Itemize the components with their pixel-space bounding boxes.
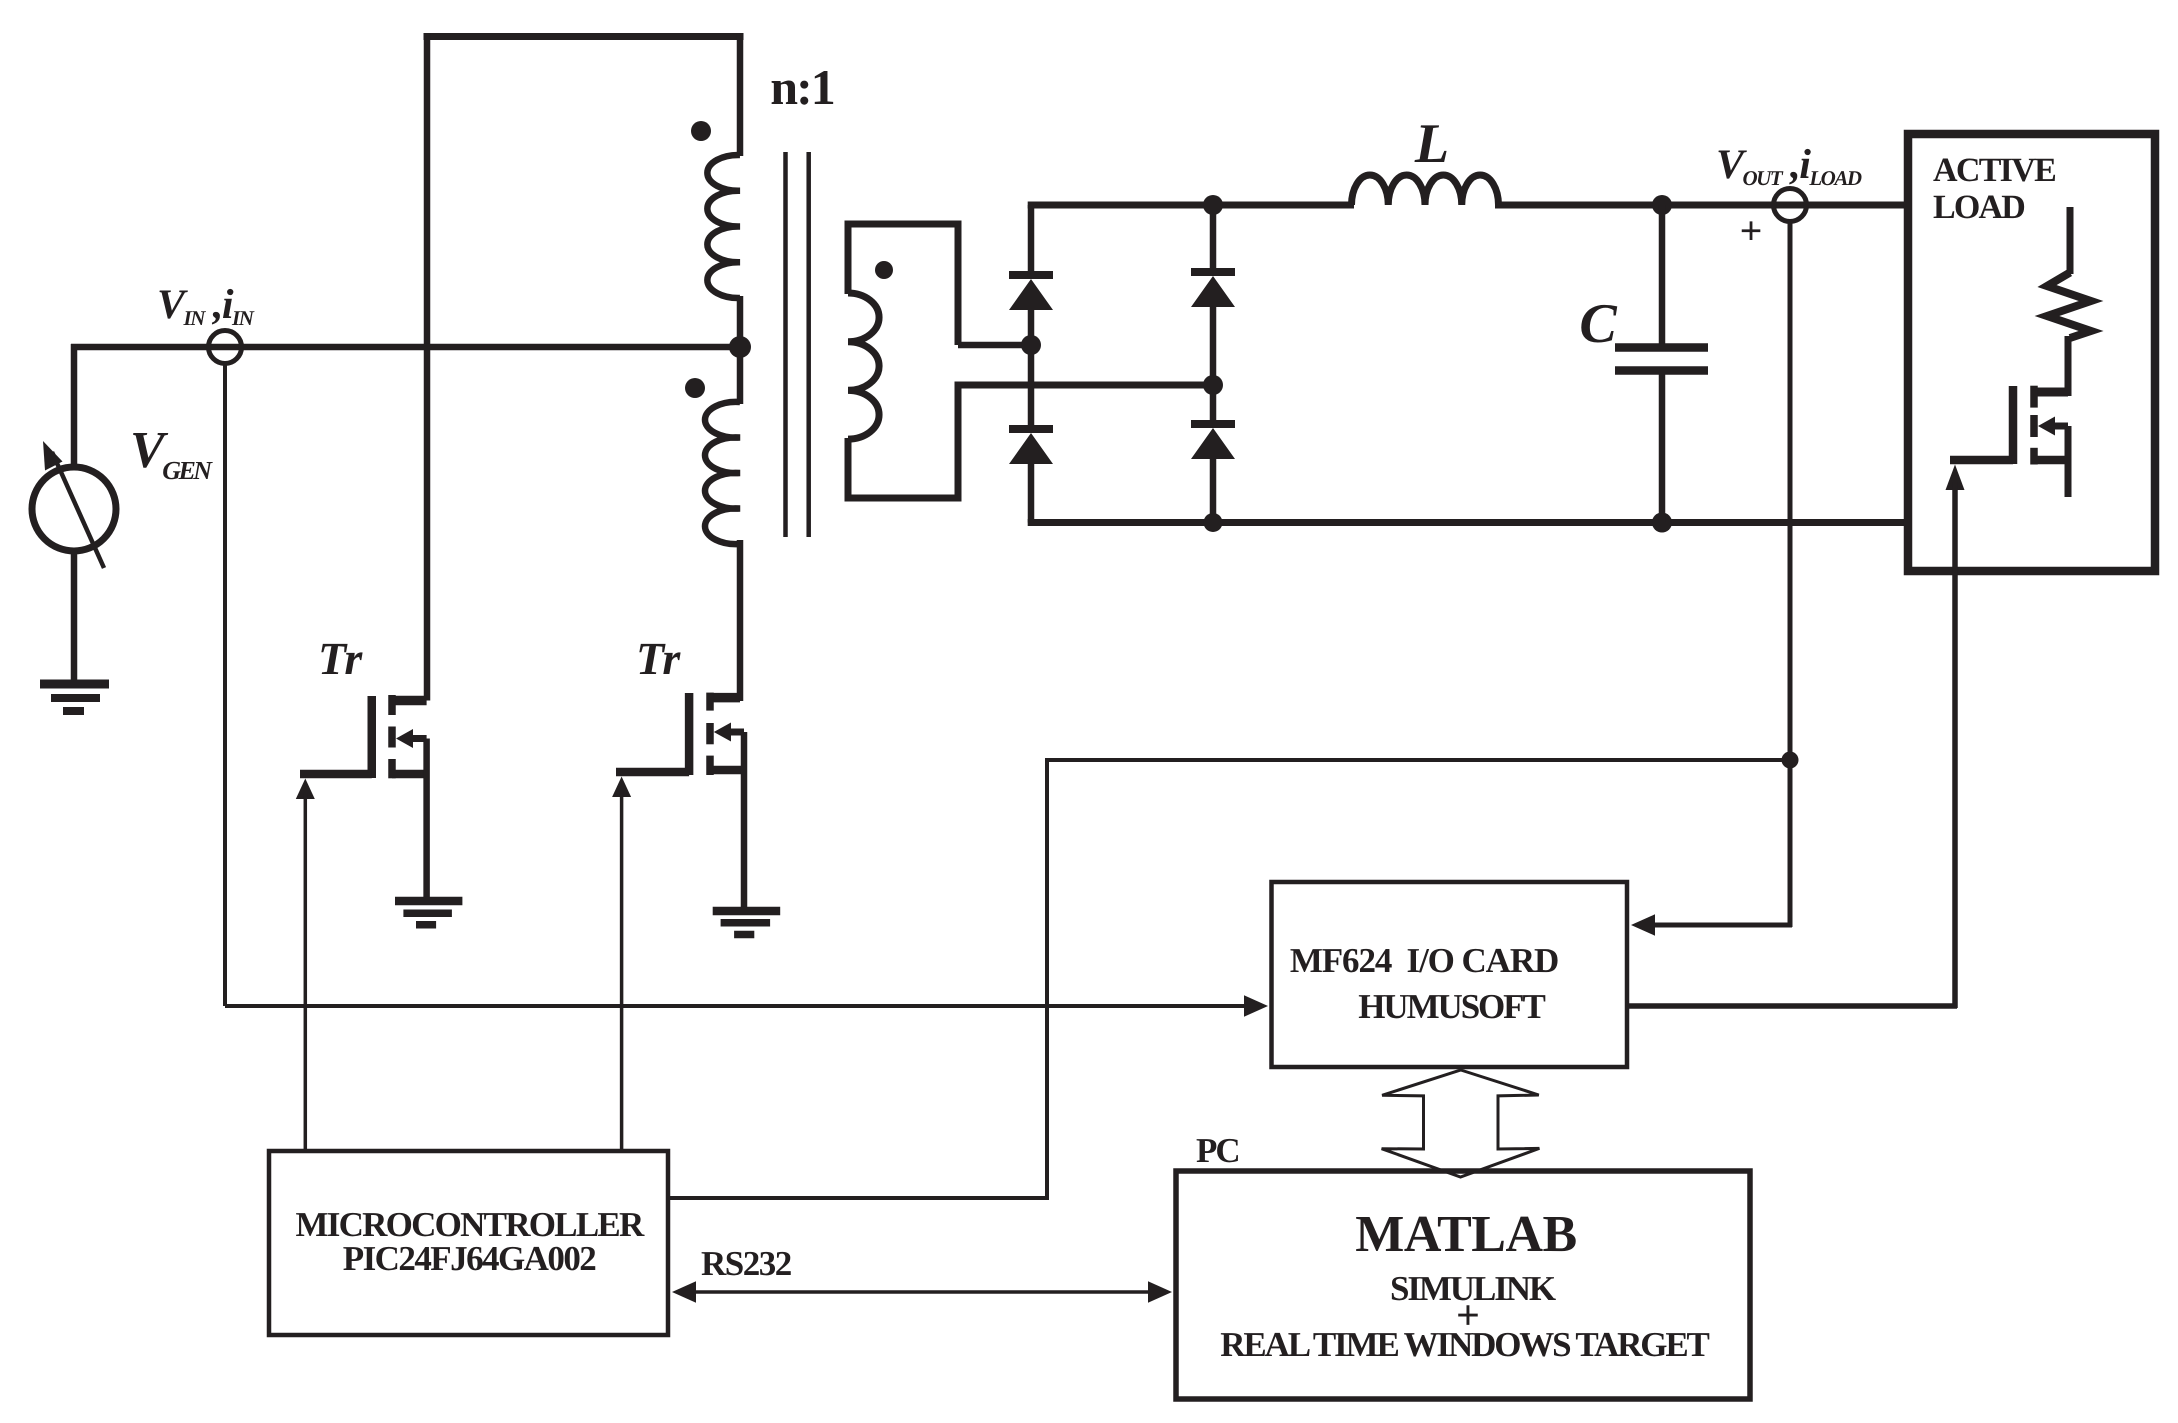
wire top loop horizontal <box>424 33 744 40</box>
svg-text:REAL TIME WINDOWS TARGET: REAL TIME WINDOWS TARGET <box>1220 1325 1709 1364</box>
polarity dot primary bottom <box>685 378 705 398</box>
wire VOUT sense into MF624 <box>1652 923 1792 928</box>
PC box <box>1176 1171 1750 1399</box>
svg-text:C: C <box>1579 293 1617 355</box>
svg-text:RS232: RS232 <box>701 1244 791 1283</box>
svg-text:LOAD: LOAD <box>1933 189 2024 226</box>
diode D3 <box>1009 425 1053 433</box>
wire MF624 output to active load <box>1627 1003 1957 1009</box>
svg-text:L: L <box>1414 113 1449 175</box>
diode D2 <box>1191 268 1235 276</box>
transistor Q3 body arrow <box>2053 423 2068 430</box>
transistor Q2 Tr drain connection <box>710 693 740 703</box>
transformer T1 secondary winding outline <box>958 342 1028 349</box>
ground generator <box>40 680 109 689</box>
transformer T1 core <box>783 152 788 537</box>
wire right loop vertical to primary top <box>737 33 744 156</box>
wire microcontroller output horizontal <box>668 1196 1047 1200</box>
polarity dot secondary <box>875 261 893 279</box>
wire Q2 gate lead <box>616 768 689 777</box>
svg-text:Tr: Tr <box>636 633 681 684</box>
svg-text:MATLAB: MATLAB <box>1355 1206 1576 1263</box>
wire VIN sense vertical <box>223 363 227 1006</box>
wire Q1 source to ground <box>423 739 430 902</box>
node VIN measurement circle <box>209 331 242 364</box>
wire VOUT sense vertical <box>1788 219 1793 927</box>
source VGEN variable arrow <box>52 452 104 568</box>
wire rectifier right column <box>1210 205 1217 269</box>
inductor L <box>1352 175 1499 205</box>
active load box <box>1908 134 2155 571</box>
transistor Q3 source connection <box>2034 456 2068 465</box>
wire primary bottom to Tr2 drain <box>737 540 744 701</box>
transistor Q2 Tr source connection <box>710 766 744 775</box>
wire bottom rail <box>1028 519 1908 526</box>
resistor load top lead <box>2067 207 2074 274</box>
wire microcontroller output to VOUT sense line <box>1045 758 1790 762</box>
wire left loop vertical (Tr1 drain feed) <box>424 33 431 701</box>
svg-text:ACTIVE: ACTIVE <box>1933 152 2055 189</box>
transistor Q1 Tr source connection <box>392 770 427 779</box>
transistor Q1 Tr body arrow <box>411 735 427 742</box>
junction D4 anode on bottom rail <box>1204 513 1223 532</box>
resistor load zigzag <box>2047 273 2091 339</box>
wire gate drive arrow Q3 from MF624 <box>1946 465 1965 491</box>
resistor load bottom lead to MOSFET drain <box>2065 336 2072 396</box>
transistor Q3 gate bar <box>2009 386 2018 464</box>
svg-text:MF624 I/O CARD: MF624 I/O CARD <box>1290 941 1558 980</box>
wire input rail VIN <box>71 344 740 351</box>
transistor Q1 Tr channel segments <box>388 695 396 715</box>
polarity dot primary top <box>691 121 711 141</box>
junction center tap primary <box>729 336 751 358</box>
junction D2 cathode on positive rail <box>1203 195 1223 215</box>
diode D1 <box>1009 271 1053 279</box>
svg-text:n:1: n:1 <box>770 59 833 115</box>
MF624 I/O card box <box>1272 882 1628 1067</box>
svg-text:HUMUSOFT: HUMUSOFT <box>1358 987 1545 1026</box>
transistor Q2 Tr gate bar <box>685 693 694 775</box>
source VGEN circle <box>32 467 116 551</box>
transistor Q1 Tr gate bar <box>368 696 377 778</box>
wire positive rail right of L <box>1495 202 1908 209</box>
wire Q1 gate lead <box>300 770 372 779</box>
ground Tr1 source <box>395 897 462 906</box>
wire gate drive arrow Q2 from microcontroller <box>612 777 631 798</box>
svg-text:PC: PC <box>1196 1131 1239 1170</box>
microcontroller box <box>269 1151 668 1335</box>
transistor Q3 load MOSFET drain connection <box>2034 388 2068 397</box>
wire gate drive arrow Q1 from microcontroller <box>296 779 315 800</box>
node VOUT measurement circle <box>1774 189 1807 222</box>
junction secondary lower tap to D2 anode <box>1203 375 1223 395</box>
capacitor C <box>1659 205 1666 344</box>
wire microcontroller output vertical <box>1045 758 1049 1200</box>
junction capacitor top <box>1652 195 1672 215</box>
wire Q3 gate lead <box>1950 456 2013 465</box>
svg-text:Tr: Tr <box>318 633 363 684</box>
transistor Q2 Tr channel segments <box>706 693 714 711</box>
wire primary winding to center tap <box>737 296 744 404</box>
wire Q2 source to ground <box>741 732 748 911</box>
junction PWM feedback on VOUT sense <box>1782 752 1799 769</box>
ground Tr2 source <box>713 907 781 916</box>
wire RS232 link <box>688 1290 1156 1294</box>
transistor Q2 Tr body arrow <box>729 729 744 736</box>
wire generator top lead <box>71 344 78 467</box>
transformer T1 primary top winding <box>707 155 740 298</box>
bidirectional bus arrow MF624-PC <box>1382 1070 1540 1177</box>
wire VIN sense horizontal to MF624 <box>225 1004 1250 1008</box>
wire generator bottom lead <box>71 551 78 682</box>
transistor Q1 Tr drain connection <box>392 696 427 706</box>
junction capacitor bottom <box>1652 513 1672 533</box>
transistor Q3 channel segments <box>2030 386 2038 408</box>
diode D4 <box>1191 420 1235 428</box>
wire positive rail left of L <box>1028 202 1354 209</box>
wire rectifier left column <box>1028 205 1035 272</box>
junction center tap to D1 anode <box>1021 335 1041 355</box>
transformer T1 primary bottom winding <box>705 402 740 544</box>
wire Q3 source stub <box>2065 426 2072 497</box>
svg-text:PIC24FJ64GA002: PIC24FJ64GA002 <box>343 1239 596 1278</box>
svg-text:+: + <box>1740 208 1763 253</box>
